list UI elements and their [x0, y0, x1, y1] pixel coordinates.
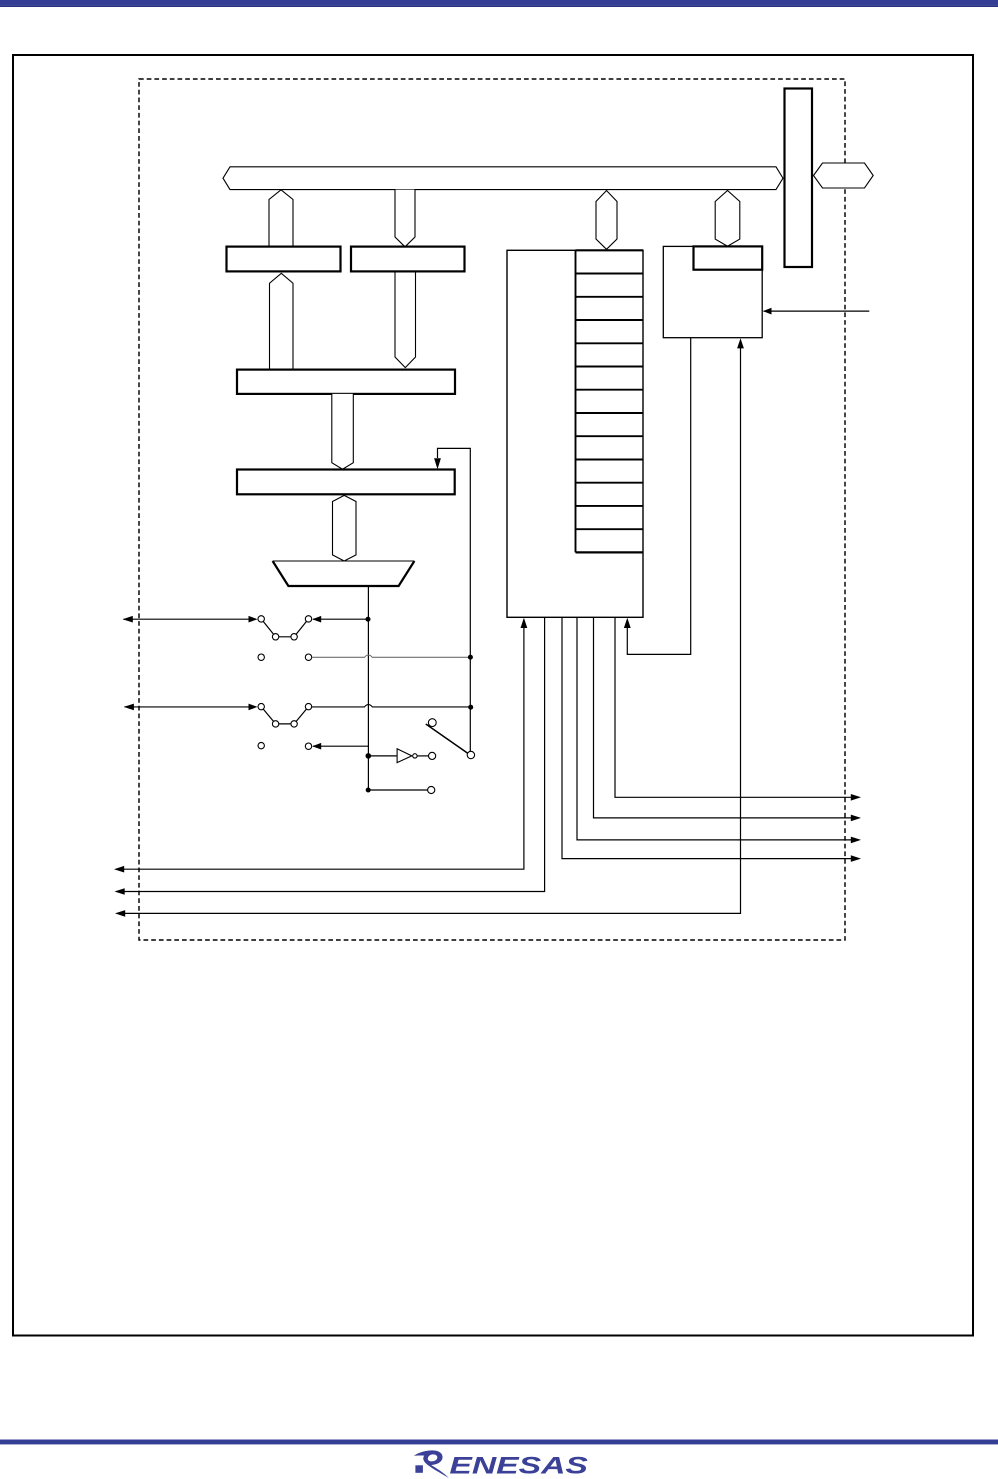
Renesas logo R swoosh [414, 1450, 588, 1479]
register stack rows [576, 250, 644, 552]
connector block3 to block4 (down arrow) [332, 394, 354, 469]
connector block2 to block3 (down arrow) [395, 272, 416, 368]
switch S1 pole lines [261, 619, 308, 637]
register stack block [507, 250, 643, 617]
connector bus to register stack (double arrow) [596, 191, 617, 250]
row4 contact circles [258, 742, 264, 748]
stack pin wire 5 (right exit) [594, 617, 860, 818]
slant switch bottom circle [467, 751, 474, 758]
Renesas logo square dot [415, 1465, 423, 1473]
inverter output circle [429, 752, 436, 759]
inverter U1 [397, 749, 412, 763]
connector bus to control block (double arrow) [715, 191, 740, 247]
mux trapezoid [273, 561, 415, 586]
switch S2 pole lines [261, 707, 308, 724]
row5 circle [428, 786, 435, 793]
arrowhead down into block4 [434, 458, 441, 469]
dashed module boundary [139, 79, 845, 940]
external bus arrow [814, 163, 874, 188]
inverter bubble [413, 754, 417, 758]
junction row2 [468, 655, 473, 660]
stack pin wire 1 (left exit) [116, 628, 524, 870]
junction inverter input [366, 753, 372, 759]
switch row1 wire right [313, 618, 368, 620]
control to stack wire [627, 338, 690, 655]
block3 [237, 370, 455, 394]
connector bus to block2 (down arrow) [395, 190, 415, 247]
row2 contact circles [258, 654, 264, 660]
inverter output wire [417, 755, 428, 757]
control feedback wire (left exit) [117, 348, 741, 913]
row4 wire with left arrow [313, 745, 368, 747]
junction row1 [366, 617, 371, 622]
junction row3 [468, 705, 473, 710]
stack pin wire 6 (right exit) [615, 617, 859, 797]
connector block4 to mux (double arrow) [333, 495, 357, 561]
stack pin wire 2 (left exit) [117, 617, 545, 891]
block2 [351, 247, 465, 272]
mux output wire [367, 586, 369, 790]
connector bus to block1 (up arrow) [269, 190, 293, 248]
junction row5 [366, 788, 371, 793]
stack pin wire 4 (right exit) [577, 617, 859, 840]
footer rule [0, 1440, 998, 1445]
switch S1 terminal circles [258, 616, 264, 622]
control sub-register [694, 246, 763, 269]
internal data bus [223, 167, 783, 190]
slant switch blade [426, 724, 469, 754]
header bar [0, 0, 998, 5]
stack pin wire 3 (right exit) [562, 617, 859, 858]
control block [663, 246, 762, 337]
svg-text:ENESAS: ENESAS [449, 1453, 588, 1479]
input arrow into control block [764, 310, 870, 312]
switch S2 terminal circles [258, 703, 264, 709]
row2 wire (gray, hops over mux wire) [312, 655, 471, 657]
switch row1 wire left [124, 618, 257, 620]
block4 [237, 470, 455, 495]
block1 [227, 247, 341, 272]
row5 wire [368, 789, 427, 791]
slant switch top circle [428, 719, 436, 727]
feedback wire into block4 [438, 448, 471, 751]
switch row3 wire left [125, 706, 257, 708]
bus interface block [785, 89, 813, 268]
connector block1 to block3 (up arrow) [270, 273, 294, 371]
inverter input wire [368, 755, 397, 757]
switch row3 wire right (hops over mux wire) [312, 705, 471, 707]
